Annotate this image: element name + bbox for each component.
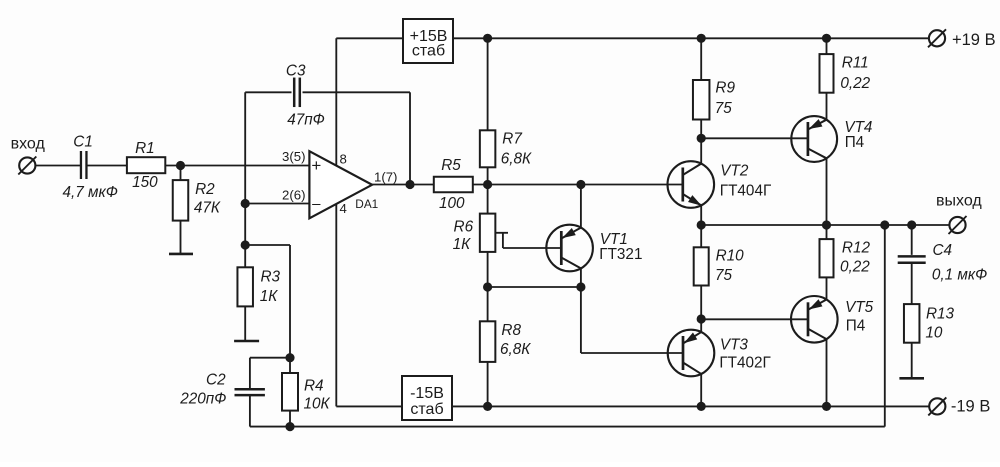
svg-text:стаб: стаб: [410, 401, 443, 418]
svg-text:VT2: VT2: [720, 163, 749, 180]
svg-text:4,7 мкФ: 4,7 мкФ: [63, 184, 118, 201]
svg-text:0,22: 0,22: [840, 75, 870, 92]
svg-text:4: 4: [340, 201, 347, 216]
svg-text:R2: R2: [195, 181, 215, 198]
svg-text:C1: C1: [73, 133, 93, 150]
svg-text:75: 75: [715, 267, 733, 284]
svg-text:6,8К: 6,8К: [501, 151, 532, 168]
svg-text:10: 10: [925, 325, 943, 342]
svg-text:R5: R5: [441, 157, 461, 174]
svg-text:R13: R13: [926, 306, 955, 323]
svg-text:R3: R3: [261, 268, 281, 285]
svg-text:75: 75: [715, 100, 733, 117]
svg-text:0,1 мкФ: 0,1 мкФ: [932, 267, 987, 284]
svg-text:10К: 10К: [304, 396, 331, 413]
svg-text:R6: R6: [454, 219, 474, 236]
svg-text:R8: R8: [501, 322, 521, 339]
svg-text:R1: R1: [135, 140, 155, 157]
svg-text:DA1: DA1: [355, 197, 378, 211]
svg-text:+19 В: +19 В: [952, 31, 996, 49]
svg-text:1К: 1К: [453, 236, 472, 253]
svg-text:0,22: 0,22: [840, 258, 870, 275]
svg-text:R12: R12: [842, 240, 871, 257]
svg-text:220пФ: 220пФ: [179, 391, 226, 408]
svg-text:ГТ321: ГТ321: [599, 246, 642, 263]
svg-text:C3: C3: [286, 63, 306, 80]
svg-text:100: 100: [439, 195, 465, 212]
svg-text:П4: П4: [846, 318, 866, 335]
svg-text:ГТ402Г: ГТ402Г: [719, 355, 770, 372]
svg-text:VT5: VT5: [845, 299, 874, 316]
svg-text:47пФ: 47пФ: [287, 112, 325, 129]
svg-text:ГТ404Г: ГТ404Г: [720, 183, 771, 200]
svg-text:1К: 1К: [260, 288, 279, 305]
svg-text:R4: R4: [304, 378, 324, 395]
svg-text:2(6): 2(6): [282, 188, 305, 203]
svg-text:150: 150: [132, 174, 158, 191]
svg-text:–: –: [312, 196, 321, 213]
svg-text:C2: C2: [206, 372, 226, 389]
svg-text:стаб: стаб: [412, 43, 445, 60]
svg-text:-15В: -15В: [410, 385, 444, 402]
svg-text:R10: R10: [716, 247, 745, 264]
svg-text:П4: П4: [845, 134, 865, 151]
svg-text:R9: R9: [715, 80, 735, 97]
svg-text:3(5): 3(5): [282, 149, 305, 164]
svg-text:-19 В: -19 В: [951, 398, 990, 416]
svg-text:вход: вход: [11, 135, 46, 152]
svg-text:8: 8: [340, 152, 347, 167]
svg-text:1(7): 1(7): [374, 170, 397, 185]
svg-text:R11: R11: [842, 55, 869, 72]
svg-text:C4: C4: [933, 242, 953, 259]
svg-text:+: +: [311, 156, 321, 175]
svg-text:47К: 47К: [194, 200, 221, 217]
svg-text:6,8К: 6,8К: [500, 341, 531, 358]
svg-text:выход: выход: [936, 193, 982, 210]
svg-text:R7: R7: [502, 131, 522, 148]
svg-text:VT3: VT3: [720, 337, 749, 354]
